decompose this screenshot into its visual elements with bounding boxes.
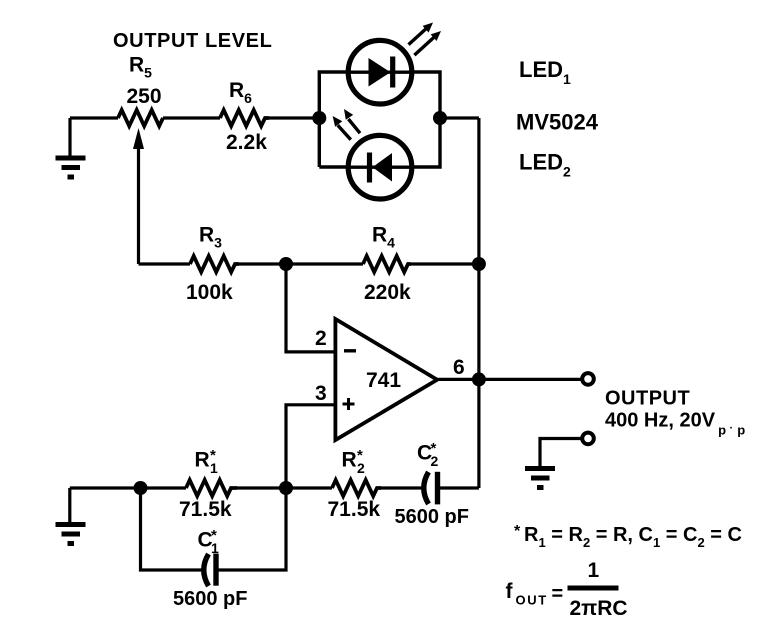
wire (R1 to center node) — [237, 486, 332, 489]
svg-text:=: = — [552, 583, 564, 605]
resistor R4 — [363, 256, 411, 272]
svg-text:1: 1 — [588, 559, 600, 582]
resistor R2 — [332, 480, 381, 496]
svg-text:f: f — [506, 580, 514, 603]
svg-text:1: 1 — [210, 460, 218, 476]
svg-text:5600 pF: 5600 pF — [395, 506, 469, 528]
output terminal — [582, 373, 594, 385]
wire (R3 row left) — [139, 262, 191, 265]
resistor R3 — [190, 256, 239, 272]
svg-text:100k: 100k — [186, 281, 233, 304]
wire (R2 to C2) — [381, 486, 422, 489]
svg-text:1: 1 — [211, 540, 219, 556]
resistor R1 — [186, 480, 237, 496]
svg-text:OUTPUT LEVEL: OUTPUT LEVEL — [113, 30, 272, 52]
formula fOUT = 1/(2piRC) — [506, 559, 628, 620]
ground terminal — [582, 433, 594, 445]
potentiometer R5 — [118, 110, 163, 264]
wire (C2 to right bus) — [440, 486, 479, 489]
LED LED1 — [347, 40, 414, 104]
node C1 left junction — [134, 481, 148, 495]
LED LED2 — [347, 135, 414, 199]
node LED right — [433, 111, 447, 125]
svg-text:2.2k: 2.2k — [226, 131, 267, 154]
ground (top left) — [56, 118, 86, 177]
svg-text:5600 pF: 5600 pF — [173, 588, 247, 610]
svg-text:741: 741 — [366, 369, 401, 392]
wire (output) — [437, 378, 581, 381]
svg-text:2: 2 — [315, 327, 327, 350]
svg-text:250: 250 — [127, 85, 162, 108]
resistor R6 — [220, 110, 269, 126]
svg-text:OUT: OUT — [516, 593, 548, 608]
wire (LED loop rectangle) — [319, 72, 440, 167]
node feedback junction — [279, 257, 293, 271]
ground (output) — [525, 469, 555, 488]
svg-text:R: R — [342, 449, 357, 472]
svg-text:OUTPUT: OUTPUT — [605, 388, 690, 410]
wire (right vertical bus) — [477, 118, 480, 488]
ground (bottom left) — [56, 488, 86, 544]
svg-text:2πRC: 2πRC — [570, 597, 628, 620]
node center bottom junction — [279, 481, 293, 495]
wire (C1 loop) — [141, 488, 203, 570]
LED1 light arrows — [409, 23, 442, 56]
LED2 light arrows — [333, 109, 360, 140]
svg-text:2: 2 — [431, 453, 439, 469]
wire (R6 to LED node) — [269, 116, 319, 119]
wire (top row between R5 and R6) — [163, 116, 220, 119]
wire (LED right node to right bus) — [440, 116, 479, 119]
svg-text:*: * — [514, 523, 521, 540]
wire (junction down to pin 2) — [286, 264, 335, 352]
svg-text:71.5k: 71.5k — [179, 498, 232, 521]
wire (R4 to right bus) — [411, 262, 479, 265]
op-amp U1 741 — [335, 319, 437, 440]
wire (ground terminal lead) — [540, 439, 581, 467]
wire (top row left segment) — [70, 116, 118, 119]
node LED left — [312, 111, 326, 125]
wire (pin 3 down to bottom row) — [286, 405, 335, 488]
svg-text:MV5024: MV5024 — [516, 110, 599, 135]
capacitor C1 — [204, 554, 216, 587]
node R4 right junction — [472, 257, 486, 271]
svg-text:71.5k: 71.5k — [328, 498, 381, 521]
wire (bottom row left) — [70, 486, 186, 489]
svg-text:3: 3 — [315, 382, 327, 405]
node output junction — [472, 372, 486, 386]
svg-text:2: 2 — [357, 460, 365, 476]
capacitor C2 — [424, 472, 438, 505]
svg-text:6: 6 — [453, 356, 465, 379]
svg-text:220k: 220k — [364, 281, 411, 304]
wire (R3 to R4) — [239, 262, 363, 265]
svg-text:R: R — [195, 449, 210, 472]
